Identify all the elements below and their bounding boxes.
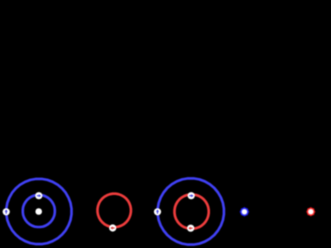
atom A outer orbit (blue) [6,179,71,244]
free particle D (blue glow) core [240,207,249,216]
atom C outer orbit (blue) [158,178,224,244]
atom A electron 2 (left of outer orbit) [3,208,10,215]
free particle E (red glow) core [306,207,315,216]
free particle E (red glow) spikes [306,207,316,217]
atom A electron 2 velocity arrow (blue, pointing up) [5,210,8,214]
atom A inner orbit (blue) [23,195,55,227]
atom A electron 1 velocity arrow (blue, pointing right) [37,194,41,197]
atom A nucleus (white) [35,208,42,215]
atom C electron 3 (bottom of inner orbit) [187,225,194,232]
atom A electron 1 (top of inner orbit) [35,192,42,199]
atom C electron 1 (left of outer orbit) [154,208,161,215]
atom C inner orbit (red) [175,195,209,229]
atom C electron 2 (top of inner orbit) [188,192,195,199]
free particle D (blue glow) spikes [239,207,249,217]
atom B orbit (red) [98,194,131,227]
atom C electron 2 velocity arrow (blue, pointing right) [189,194,193,197]
atom C electron 1 velocity arrow (blue, pointing up) [156,210,159,214]
atom B electron velocity arrow (red, pointing left) [110,227,114,230]
atom C electron 3 velocity arrow (red, pointing left) [188,227,192,230]
atom B electron (bottom of orbit) [109,224,116,231]
